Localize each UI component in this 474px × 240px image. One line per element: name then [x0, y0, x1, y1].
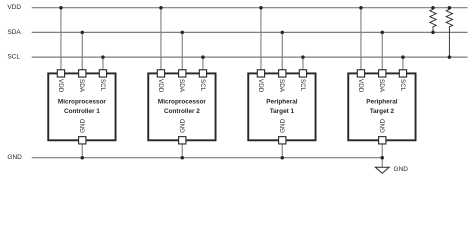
svg-text:GND: GND: [280, 118, 287, 132]
svg-text:GND: GND: [80, 118, 87, 132]
svg-text:SDA: SDA: [78, 79, 85, 93]
svg-text:SDA: SDA: [178, 79, 185, 93]
svg-text:GND: GND: [394, 166, 409, 173]
svg-text:Target 1: Target 1: [270, 108, 295, 115]
svg-text:SCL: SCL: [299, 79, 306, 92]
svg-text:SDA: SDA: [278, 79, 285, 93]
svg-text:SCL: SCL: [7, 54, 20, 61]
svg-text:GND: GND: [180, 118, 187, 132]
svg-text:GND: GND: [7, 154, 22, 161]
svg-text:SDA: SDA: [7, 29, 21, 36]
svg-text:VDD: VDD: [157, 79, 164, 93]
svg-text:Microprocessor: Microprocessor: [58, 99, 106, 106]
svg-text:VDD: VDD: [57, 79, 64, 93]
svg-text:Controller 2: Controller 2: [164, 108, 200, 115]
svg-text:SCL: SCL: [199, 79, 206, 92]
svg-text:SDA: SDA: [378, 79, 385, 93]
svg-text:SCL: SCL: [99, 79, 106, 92]
svg-text:Peripheral: Peripheral: [366, 99, 397, 106]
svg-text:VDD: VDD: [257, 79, 264, 93]
svg-text:SCL: SCL: [399, 79, 406, 92]
svg-text:Controller 1: Controller 1: [64, 108, 100, 115]
svg-text:VDD: VDD: [7, 4, 21, 11]
svg-text:VDD: VDD: [357, 79, 364, 93]
svg-text:GND: GND: [380, 118, 387, 132]
svg-text:Target 2: Target 2: [370, 108, 395, 115]
svg-text:Microprocessor: Microprocessor: [158, 99, 206, 106]
svg-text:Peripheral: Peripheral: [266, 99, 297, 106]
